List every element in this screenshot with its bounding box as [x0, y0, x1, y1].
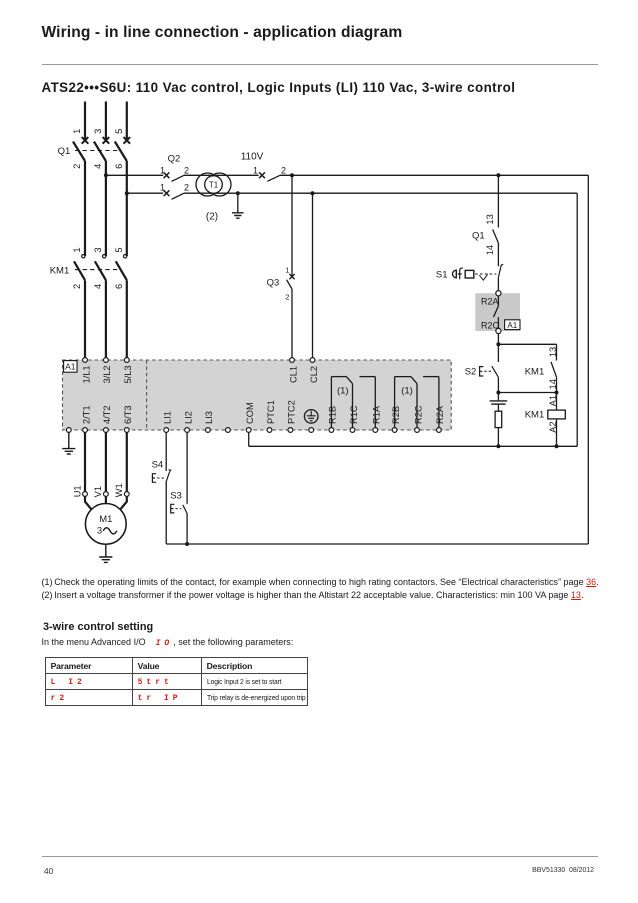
- terminal V1: [93, 486, 108, 497]
- node R2C terminal: [496, 328, 501, 333]
- switch S3 start (NO): [183, 505, 187, 514]
- wire V1 to motor: [105, 496, 107, 503]
- switch Q3: [287, 274, 295, 289]
- terminal PE (starter earth): [66, 428, 71, 433]
- wire LI1 to S4: [165, 432, 167, 471]
- svg-text:1/L1: 1/L1: [81, 365, 91, 383]
- terminal LI1: [163, 411, 173, 432]
- svg-text:V1: V1: [93, 486, 103, 497]
- svg-text:2/T1: 2/T1: [81, 405, 91, 424]
- wire 110V top rail: [280, 174, 588, 176]
- wire starter output U1: [84, 432, 86, 491]
- terminal CL2: [309, 358, 319, 383]
- contact KM1 auxiliary 13-14: [551, 344, 557, 392]
- terminal R1B: [328, 406, 338, 432]
- node CL1 branch: [290, 173, 294, 177]
- wire inner right rail (neutral): [576, 193, 578, 446]
- svg-text:R2C: R2C: [413, 405, 423, 424]
- capacitor C (snubber): [490, 401, 508, 404]
- svg-text:COM: COM: [245, 402, 255, 424]
- terminal 1/L1: [81, 358, 91, 384]
- wire phase L1 supply drop: [84, 102, 86, 141]
- svg-text:LI3: LI3: [204, 411, 214, 424]
- actuator S3: [171, 504, 182, 513]
- wire S3 to LI rail: [186, 514, 188, 545]
- wire R2C to S2 branch: [497, 334, 499, 362]
- wire COM rail: [249, 445, 578, 447]
- wire T1 secondary bottom run: [214, 192, 578, 194]
- svg-text:S3: S3: [170, 490, 182, 501]
- terminal R2B: [391, 406, 401, 432]
- coil KM1: [548, 410, 566, 419]
- terminal 4/T2: [102, 405, 112, 432]
- svg-text:CL1: CL1: [288, 366, 298, 383]
- wire COM drop: [248, 432, 250, 446]
- node tap L2 to Q2: [104, 173, 108, 177]
- svg-text:R1A: R1A: [372, 405, 382, 424]
- pushbutton S2 start: [465, 366, 499, 377]
- relay contact block R2 (fault relay): [475, 293, 520, 331]
- svg-text:U1: U1: [72, 485, 82, 497]
- terminal (unused): [226, 428, 231, 433]
- wire branch bottom (KM1 14 to coil): [498, 392, 556, 394]
- wire W1 to motor: [120, 496, 127, 509]
- wire KM1 coil to COM rail: [556, 419, 558, 446]
- svg-text:A1: A1: [65, 362, 76, 372]
- svg-text:R1C: R1C: [349, 405, 359, 424]
- wire resistor to COM rail: [497, 428, 499, 447]
- terminal COM: [245, 402, 255, 432]
- wire S4 to LI rail: [165, 481, 167, 544]
- svg-text:R2B: R2B: [391, 406, 401, 424]
- switch 110V supply: [259, 172, 280, 181]
- wire starter PE to ground: [68, 432, 70, 448]
- svg-text:R1B: R1B: [328, 406, 338, 424]
- svg-text:4/T2: 4/T2: [102, 405, 112, 424]
- node control chain branch: [496, 173, 500, 177]
- terminal W1: [114, 483, 129, 497]
- wire neutral to CL2: [312, 193, 314, 357]
- terminal R2C: [413, 405, 423, 432]
- wire capacitor to resistor: [497, 404, 499, 411]
- wire branch top (to KM1 13): [498, 343, 556, 345]
- wire starter output W1: [126, 432, 128, 491]
- terminal R2A: [435, 405, 445, 432]
- motor M1: [85, 504, 126, 545]
- terminal PTC2: [287, 400, 297, 432]
- wire U1 to motor: [85, 496, 92, 509]
- terminal 3/L2: [102, 358, 112, 384]
- terminal PTC1: [266, 400, 276, 432]
- wire L2 tap to Q2 pole 1: [106, 174, 163, 176]
- soft starter A1 (ATS22) body: [63, 360, 452, 430]
- node T1 ground tap: [236, 191, 240, 195]
- svg-text:(1): (1): [337, 386, 349, 397]
- svg-text:PTC2: PTC2: [287, 400, 297, 424]
- svg-text:M1: M1: [99, 514, 112, 525]
- wire L3 tap to Q2 pole 2: [127, 192, 163, 194]
- contact Q1 auxiliary 13-14: [493, 230, 499, 244]
- wire S1 to R2 relay box: [497, 278, 499, 291]
- svg-text:LI2: LI2: [183, 411, 193, 424]
- wire LI2 to S3: [186, 432, 188, 504]
- terminal earth symbol: [304, 410, 318, 433]
- label A1 (starter): [64, 361, 77, 373]
- node CL2 branch: [311, 191, 315, 195]
- terminal LI3: [204, 411, 214, 432]
- wire to KM1 coil: [556, 393, 558, 411]
- wire outer right rail (110V): [587, 175, 589, 544]
- svg-text:3: 3: [97, 526, 102, 537]
- contactor KM1 (3-pole): [74, 255, 127, 358]
- wire 110V to Q3: [291, 175, 293, 276]
- relay contact R2 (internal): [395, 377, 439, 428]
- wire Q3 to CL1: [291, 289, 293, 358]
- wire T1 to ground: [237, 193, 239, 212]
- circuit-breaker Q1 (3-pole): [73, 137, 130, 256]
- node RC branch left: [496, 391, 500, 395]
- wire LI bottom rail: [166, 543, 588, 545]
- switch S4 stop (NC): [166, 470, 171, 482]
- pushbutton S1 emergency stop: [436, 264, 503, 280]
- svg-text:LI1: LI1: [163, 411, 173, 424]
- wire phase L2 supply drop: [105, 102, 107, 141]
- ground (T1 secondary): [232, 213, 244, 218]
- wire S2 to RC node: [497, 377, 499, 392]
- wire Q2 to T1 primary (top): [184, 174, 214, 176]
- svg-text:W1: W1: [114, 483, 124, 497]
- terminal 6/T3: [123, 405, 133, 432]
- circuit-breaker Q2 (2-pole): [164, 172, 184, 199]
- terminal 5/L3: [123, 358, 133, 384]
- wire node to capacitor: [497, 393, 499, 401]
- node R2A terminal: [496, 291, 501, 296]
- resistor R (snubber): [495, 411, 502, 427]
- node tap L3 to Q2: [125, 191, 129, 195]
- node branch bottom right: [555, 391, 559, 395]
- wire starter output V1: [105, 432, 107, 491]
- ground (starter): [62, 449, 75, 454]
- svg-text:(1): (1): [401, 386, 413, 397]
- terminal R1A: [372, 405, 382, 432]
- svg-text:PTC1: PTC1: [266, 400, 276, 424]
- node branch to KM1 aux: [496, 342, 500, 346]
- terminal U1: [72, 485, 87, 497]
- node RC to rail: [496, 444, 500, 448]
- wire Q1 aux to S1: [497, 243, 499, 266]
- svg-text:3/L2: 3/L2: [102, 365, 112, 383]
- svg-text:R2A: R2A: [435, 405, 445, 424]
- relay contact R1 (internal): [331, 377, 375, 428]
- wire 110V rail to Q1 aux: [497, 175, 499, 227]
- svg-text:5/L3: 5/L3: [123, 365, 133, 383]
- transformer T1: [196, 173, 231, 196]
- wire phase L3 supply drop: [126, 102, 128, 141]
- wire Q2 to T1 (bottom): [184, 192, 214, 194]
- terminal R1C: [349, 405, 359, 432]
- svg-text:6/T3: 6/T3: [123, 405, 133, 424]
- terminal LI2: [183, 411, 193, 432]
- svg-text:S4: S4: [152, 459, 164, 470]
- wire T1 to 110V switch (top): [214, 174, 259, 176]
- svg-text:CL2: CL2: [309, 366, 319, 383]
- node S3 to rail: [185, 542, 189, 546]
- wire motor to ground: [105, 544, 107, 556]
- terminal CL1: [288, 358, 298, 383]
- ground (motor): [99, 557, 112, 562]
- terminal 2/T1: [81, 405, 91, 432]
- actuator S4: [152, 474, 164, 483]
- node coil to rail: [555, 444, 559, 448]
